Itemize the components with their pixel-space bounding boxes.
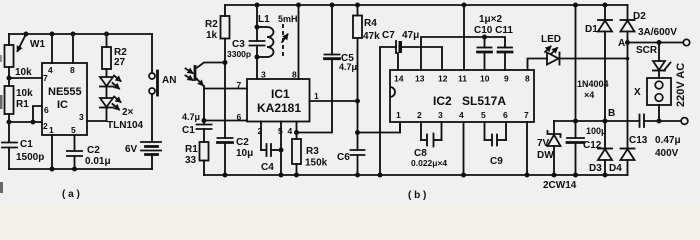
svg-text:6V: 6V (125, 144, 138, 155)
svg-text:R3: R3 (306, 146, 319, 157)
svg-text:DW: DW (537, 150, 554, 161)
svg-text:C7: C7 (382, 30, 395, 41)
core of L1 (282, 24, 284, 58)
scan smudge marks (decorative) (0, 95, 3, 109)
wire LED cathode to A column (560, 58, 628, 60)
wire pin 2 (9, 121, 42, 123)
capacitor C2 (67, 151, 82, 156)
diode D4 (621, 148, 635, 150)
svg-text:3: 3 (261, 70, 266, 80)
svg-text:10: 10 (480, 74, 490, 84)
svg-text:B: B (608, 108, 615, 119)
svg-text:IC2: IC2 (433, 94, 452, 108)
svg-text:D3: D3 (589, 163, 602, 174)
wire pin 14 stub (IC2) (397, 53, 399, 70)
inductor L1 (257, 26, 267, 28)
svg-text:5: 5 (71, 125, 76, 135)
resistor R1 (b) (200, 142, 209, 161)
resistor R4 (355, 3, 360, 8)
svg-text:10k: 10k (16, 88, 33, 99)
wire pin 1 (IC1) to R4 column (310, 100, 358, 102)
capacitor C12 (575, 5, 577, 121)
wiper arrow of W1 (24, 32, 29, 37)
svg-text:1N4004: 1N4004 (577, 79, 609, 89)
svg-text:SL517A: SL517A (462, 94, 506, 108)
svg-text:4: 4 (48, 65, 53, 75)
wire pin 4 stub (51, 34, 53, 63)
svg-text:C4: C4 (261, 162, 274, 173)
svg-text:3300p: 3300p (227, 49, 251, 59)
svg-text:C13: C13 (629, 135, 648, 146)
wire node A to terminal (628, 42, 684, 44)
node B (603, 119, 608, 124)
node junction R1 bottom (7, 120, 12, 125)
svg-text:1: 1 (314, 91, 319, 101)
svg-text:C10 C11: C10 C11 (474, 25, 513, 36)
op-amp U2 IC1 KA2181 box (247, 79, 310, 122)
wire pin 2 stub (IC1) (260, 122, 262, 151)
svg-text:10μ: 10μ (236, 148, 253, 159)
phototransistor Q1 (194, 67, 197, 80)
node junction pin7 (7, 76, 12, 81)
svg-text:1μ×2: 1μ×2 (479, 14, 503, 25)
capacitor C1 (b) (203, 121, 205, 125)
wire R1 to C1 (8, 114, 10, 142)
wire switch to battery (151, 94, 153, 142)
capacitor C3 (256, 5, 258, 41)
svg-text:47μ: 47μ (402, 30, 419, 41)
svg-text:C1: C1 (182, 125, 195, 136)
svg-text:4.7μ: 4.7μ (339, 62, 357, 72)
zener diode DW (553, 121, 555, 134)
wire pin 7 stub (IC2) (526, 122, 528, 175)
svg-text:C6: C6 (337, 152, 350, 163)
svg-text:27: 27 (114, 57, 126, 68)
resistor R3 (292, 139, 301, 164)
wire pin 4 stub (IC2) (463, 122, 465, 175)
switch AN (151, 34, 153, 73)
wire LED to pin3 (106, 108, 108, 122)
capacitor C2 (b) (218, 137, 233, 139)
diode D2 (627, 5, 629, 20)
terminal (top) (683, 39, 689, 45)
resistor R2 (104, 32, 109, 37)
thyristor SCR (658, 43, 660, 62)
wire pin 8 stub (IC1) (298, 5, 300, 79)
svg-text:6: 6 (44, 105, 49, 115)
wire pin 3 stub (87, 120, 107, 122)
svg-text:10k: 10k (15, 67, 32, 78)
wire A column (627, 43, 629, 149)
svg-text:220V AC: 220V AC (675, 63, 687, 107)
svg-text:8: 8 (525, 74, 530, 84)
svg-text:0.022μ×4: 0.022μ×4 (411, 158, 447, 168)
svg-text:6: 6 (237, 112, 242, 122)
wire pin 7 (IC1) (204, 88, 247, 90)
op-amp U1 NE555 IC box (42, 63, 87, 135)
battery 6V (141, 141, 161, 143)
svg-text:5mH: 5mH (278, 14, 298, 24)
wire pin 3 stub (IC2) (441, 122, 443, 140)
LED D-a1 (100, 77, 113, 86)
svg-text:2: 2 (43, 121, 48, 131)
svg-text:1: 1 (396, 110, 401, 120)
svg-text:D1: D1 (585, 24, 598, 35)
capacitor C1 (2, 143, 17, 148)
wire pin 6 (IC1) (204, 120, 247, 122)
svg-text:C2: C2 (236, 137, 249, 148)
svg-text:SCR: SCR (636, 45, 658, 56)
wire socket to B wire (658, 105, 660, 121)
svg-text:KA2181: KA2181 (257, 101, 301, 115)
resistor R2 (b) (224, 5, 226, 16)
svg-text:4: 4 (459, 110, 464, 120)
svg-text:150k: 150k (305, 158, 328, 169)
wire pin 1 stub (IC2) (399, 122, 401, 133)
wire pin 6 (33, 106, 42, 122)
svg-text:7: 7 (524, 110, 529, 120)
svg-text:47k: 47k (363, 31, 380, 42)
wire bottom rail (a) (9, 168, 152, 170)
svg-text:7: 7 (237, 80, 242, 90)
svg-text:NE555: NE555 (48, 86, 82, 98)
svg-text:1: 1 (49, 125, 54, 135)
LED (b) (547, 53, 559, 65)
wire W1 to R1 (8, 67, 10, 86)
capacitor C6 (351, 150, 365, 155)
svg-text:TLN104: TLN104 (107, 120, 144, 131)
svg-text:11: 11 (458, 74, 467, 84)
svg-text:R1: R1 (16, 99, 29, 110)
svg-text:W1: W1 (30, 39, 45, 50)
wire pin 6 stub (IC2) (505, 122, 507, 140)
svg-text:R2: R2 (205, 19, 218, 30)
svg-text:6: 6 (503, 110, 508, 120)
svg-text:2×: 2× (122, 107, 134, 118)
diode D3 (604, 121, 606, 149)
svg-text:0.01μ: 0.01μ (85, 156, 111, 167)
diode D1 (603, 3, 608, 8)
op-amp U3 IC2 SL517A box (390, 70, 534, 122)
node junction pin6 branch (31, 120, 36, 125)
wire top rail (b) (225, 4, 628, 6)
svg-text:1k: 1k (206, 30, 218, 41)
wire left rail to W1 (8, 34, 10, 45)
svg-text:7V: 7V (537, 138, 550, 149)
wire pin 5 stub (IC2) (484, 122, 486, 140)
svg-text:8: 8 (292, 70, 297, 80)
node A (625, 40, 630, 45)
svg-text:A: A (618, 38, 625, 49)
svg-text:12: 12 (438, 74, 448, 84)
wire pin 8 stub (72, 34, 74, 63)
svg-text:5: 5 (481, 110, 486, 120)
resistor R1 (5, 86, 14, 114)
svg-text:R4: R4 (364, 18, 377, 29)
svg-text:4.7μ: 4.7μ (182, 112, 200, 122)
svg-text:L1: L1 (258, 14, 270, 25)
svg-text:14: 14 (394, 74, 404, 84)
wire pin 5 stub (IC1) (280, 122, 282, 176)
wire R4 column to IC2 pin 1 (358, 122, 401, 133)
svg-text:2: 2 (417, 110, 422, 120)
svg-text:8: 8 (70, 65, 75, 75)
svg-text:3: 3 (438, 110, 443, 120)
capacitor C7 (380, 47, 396, 175)
capacitor C5 (325, 54, 340, 56)
wire top rail (a) (9, 33, 152, 35)
svg-text:×4: ×4 (584, 90, 594, 100)
svg-text:( a ): ( a ) (62, 189, 80, 200)
svg-text:4: 4 (288, 126, 293, 136)
svg-text:13: 13 (415, 74, 425, 84)
capacitor C4 (261, 149, 266, 151)
socket X (647, 78, 671, 105)
wire pin 7 (9, 77, 42, 79)
svg-text:1500p: 1500p (16, 152, 44, 163)
wire pin 2 stub (IC2) (420, 122, 422, 140)
svg-text:D4: D4 (609, 163, 622, 174)
wire pin 4 stub (IC1) (296, 122, 298, 140)
LED D-a2 (106, 87, 108, 99)
svg-text:3: 3 (79, 112, 84, 122)
svg-text:C12: C12 (583, 140, 602, 151)
svg-text:9: 9 (504, 74, 509, 84)
capacitor C8 (421, 139, 427, 141)
capacitor C9 (485, 139, 492, 141)
svg-text:C9: C9 (490, 156, 503, 167)
svg-text:400V: 400V (655, 148, 679, 159)
svg-text:2CW14: 2CW14 (543, 180, 577, 191)
capacitor C13 (640, 115, 645, 128)
capacitor C11 (498, 47, 512, 49)
wire B horizontal (554, 120, 640, 122)
potentiometer W1 (5, 45, 14, 67)
svg-text:0.47μ: 0.47μ (655, 135, 681, 146)
svg-text:33: 33 (185, 155, 197, 166)
wire pin 8 (IC2) to LED (528, 59, 548, 71)
svg-text:X: X (634, 87, 641, 98)
svg-text:R1: R1 (185, 144, 198, 155)
svg-text:C1: C1 (20, 139, 33, 150)
svg-text:100μ: 100μ (586, 126, 607, 136)
svg-text:3A/600V: 3A/600V (638, 27, 677, 38)
wire bottom rail (b) (204, 174, 628, 176)
wire pin 11 stub (IC2) (463, 5, 465, 70)
svg-text:AN: AN (162, 75, 176, 86)
wire pin 13 (IC2) to C10 C11 (421, 37, 505, 70)
wire pin 5 stub (74, 135, 76, 151)
wire pin 1 stub (51, 135, 53, 169)
svg-text:( b ): ( b ) (408, 190, 426, 201)
svg-text:C2: C2 (87, 145, 100, 156)
svg-text:IC: IC (57, 99, 68, 111)
capacitor C10 (478, 47, 492, 49)
svg-text:LED: LED (541, 34, 561, 45)
svg-text:IC1: IC1 (271, 87, 290, 101)
terminal (bottom) (681, 118, 688, 125)
wire pin4 node to C5 (297, 59, 333, 133)
svg-text:D2: D2 (633, 11, 646, 22)
